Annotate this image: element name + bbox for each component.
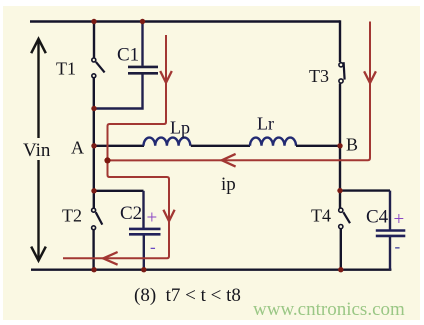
junction bottom rail / C2 stem [141,267,146,272]
junction T2 branch / C2 [91,188,96,193]
svg-text:T2: T2 [62,206,82,226]
svg-text:C1: C1 [117,45,139,66]
svg-text:(8) t7 < t < t8: (8) t7 < t < t8 [134,285,241,306]
junction top rail / C1 stem [140,19,145,24]
svg-text:-: - [150,238,156,257]
switch T4 [339,208,350,229]
svg-text:T4: T4 [311,206,331,226]
node B junction [337,143,342,148]
svg-text:C4: C4 [366,207,389,228]
junction right vertical / C4 branch [337,188,342,193]
svg-text:www.cntronics.com: www.cntronics.com [253,299,405,320]
inductor Lp [144,138,191,146]
svg-text:A: A [71,138,84,158]
capacitor C4 [376,191,406,270]
capacitor C2 [129,191,161,270]
svg-text:T1: T1 [56,59,76,79]
wire right vertical lower (T4 to bottom rail) [340,229,342,270]
svg-text:Lp: Lp [170,118,190,138]
capacitor C1 [94,20,158,108]
svg-text:+: + [394,209,405,230]
wire left branch upper (top rail to T1) [93,20,95,58]
Vin arrow lower segment [37,160,39,260]
junction bottom rail / right vertical [338,267,343,272]
svg-text:+: + [147,208,158,229]
switch T2 [92,208,103,230]
Vin arrowhead down [31,247,46,261]
wire right vertical upper (top rail corner to T3) [339,20,341,62]
red junction dot [104,157,110,163]
wire C4 branch horizontal [340,189,390,191]
svg-text:T3: T3 [309,66,329,86]
svg-text:Vin: Vin [23,140,51,161]
junction top rail / T1 branch [91,19,96,24]
junction C1 return / T1 branch [91,106,96,111]
svg-text:-: - [395,237,401,256]
red current path left loop [63,35,169,258]
wire left branch lower (T2 to bottom rail) [92,230,94,270]
svg-text:C2: C2 [120,203,142,224]
red current path right leg [108,22,371,161]
wire left branch middle (T1 to T2) [93,78,95,208]
Vin arrow upper segment [37,39,39,138]
Vin arrowhead up [31,39,46,53]
junction bottom rail / T2 branch [91,267,96,272]
wire top rail [30,20,340,22]
svg-text:Lr: Lr [257,114,274,134]
wire bottom rail [31,269,391,271]
wire node A horizontal [94,145,144,147]
red arrow down on C2 leg [163,210,174,221]
red arrow down on C1 leg [160,71,172,83]
wire Lr to node B [296,145,340,147]
red arrow down on T3 leg [364,71,376,83]
switch T1 [92,58,105,78]
node A junction [91,143,96,148]
svg-text:ip: ip [221,174,236,195]
wire right vertical middle (T3 to T4) [339,84,341,209]
svg-text:B: B [346,135,358,155]
switch T3 [339,62,345,83]
red arrow left on ip line [222,154,236,167]
red arrow left on bottom return [103,252,117,265]
wire between Lp and Lr [191,145,250,147]
inductor Lr [250,138,296,146]
wire T2 branch horizontal [94,190,144,192]
